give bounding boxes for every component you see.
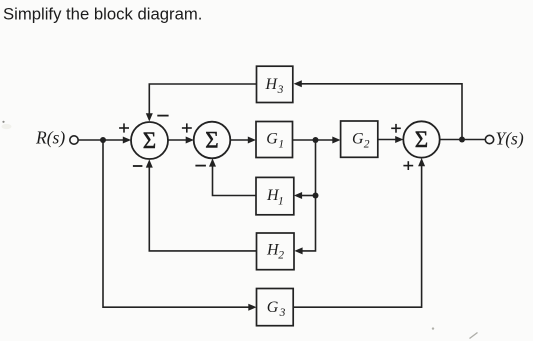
svg-text:3: 3 [277, 84, 284, 96]
wire G2 to summer S3 [378, 139, 398, 141]
svg-text:2: 2 [364, 139, 370, 151]
svg-text:Σ: Σ [143, 128, 156, 153]
faint scan mark dot top-left [2, 121, 4, 123]
block G2 [341, 121, 378, 157]
svg-text:G: G [267, 299, 279, 316]
block H1 [256, 177, 294, 214]
sign + at S3 bottom input [403, 161, 413, 170]
svg-text:Simplify the block diagram.: Simplify the block diagram. [3, 5, 202, 24]
wire H3 output left and down into S1 top [149, 84, 256, 117]
wire H1 output left and up into S2 bottom [213, 164, 257, 196]
input terminal circle [70, 136, 78, 144]
wire node D up and left into H3 [299, 84, 462, 140]
wire S2 to block G1 [230, 139, 250, 141]
wire S1 to summer S2 [168, 139, 189, 141]
node C (H1 tap) [313, 193, 319, 199]
summing junction S2 [194, 122, 231, 159]
summing junction S1 [131, 122, 168, 159]
wire node C into H1 [300, 195, 316, 197]
node D (output branch) [459, 137, 465, 143]
faint scan smudge left [2, 124, 12, 129]
output terminal circle [485, 135, 493, 143]
wire G3 output right and up into S3 bottom [293, 164, 421, 308]
svg-text:H: H [265, 76, 279, 93]
block G3 [257, 289, 294, 326]
sign - at S2 bottom input [195, 165, 206, 167]
wire node A down and right to G3 [103, 140, 251, 307]
wire node B down to H2 [301, 140, 316, 251]
sign + at S1 left input [119, 123, 129, 132]
sign - at S1 bottom input [133, 165, 143, 167]
node A (R branch) [100, 137, 106, 143]
svg-text:1: 1 [278, 139, 284, 151]
svg-text:Σ: Σ [415, 127, 428, 152]
wire G1 to G2 [293, 139, 336, 141]
faint pencil mark bottom-right [470, 333, 478, 339]
block G1 [256, 122, 293, 158]
wire S3 to output terminal [440, 139, 486, 141]
svg-text:1: 1 [278, 195, 284, 207]
wire R(s) to summer S1 [78, 139, 125, 141]
block H2 [257, 233, 295, 270]
svg-text:G: G [266, 131, 278, 148]
svg-text:2: 2 [278, 250, 284, 262]
sign - at S1 top input [157, 115, 168, 117]
block H3 [257, 66, 293, 102]
svg-text:Σ: Σ [205, 128, 218, 153]
sign + at S3 left input [391, 124, 401, 133]
wire H2 output left and up into S1 bottom [149, 165, 256, 251]
node B (G1 output branch) [313, 137, 319, 143]
svg-text:G: G [352, 131, 364, 148]
sign + at S2 left input [182, 123, 192, 132]
faint pencil dot bottom [432, 327, 434, 329]
svg-text:3: 3 [279, 307, 286, 319]
summing junction S3 [403, 121, 439, 157]
svg-text:Y(s): Y(s) [496, 129, 524, 149]
svg-text:R(s): R(s) [35, 128, 65, 148]
